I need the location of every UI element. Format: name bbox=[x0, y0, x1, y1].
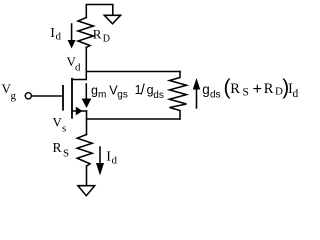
wire top rail bbox=[86, 71, 180, 73]
transistor M1 gate bar bbox=[62, 86, 64, 110]
resistor 1/gds with leads bbox=[170, 72, 187, 120]
svg-text:d: d bbox=[293, 88, 299, 100]
wire top from RD to ground bbox=[86, 5, 113, 18]
transistor M1 source lead bbox=[72, 110, 87, 112]
svg-text:g: g bbox=[11, 90, 17, 102]
svg-text:S: S bbox=[243, 87, 249, 99]
svg-text:g: g bbox=[91, 84, 98, 98]
wire gate bbox=[32, 95, 62, 97]
svg-text:s: s bbox=[62, 123, 66, 135]
svg-text:d: d bbox=[112, 155, 118, 167]
ground (top) bbox=[104, 15, 120, 23]
wire to ground (bottom) bbox=[86, 166, 88, 186]
svg-text:R: R bbox=[230, 81, 240, 97]
wire bottom rail bbox=[87, 118, 181, 120]
transistor M1 source arrow bbox=[76, 107, 83, 116]
current source gmVgs arrow bbox=[85, 84, 87, 100]
svg-text:+: + bbox=[253, 81, 262, 98]
svg-text:D: D bbox=[103, 34, 110, 45]
svg-text:R: R bbox=[93, 27, 102, 42]
current arrow Id (top) bbox=[71, 24, 73, 41]
current arrow gds(RS+RD)Id bbox=[196, 89, 198, 108]
resistor RD bbox=[78, 18, 93, 48]
svg-text:d: d bbox=[75, 62, 81, 74]
svg-text:R: R bbox=[264, 81, 274, 97]
svg-text:g: g bbox=[202, 82, 210, 97]
wire source down bbox=[86, 111, 88, 135]
svg-text:R: R bbox=[53, 140, 62, 155]
svg-text:d: d bbox=[56, 31, 62, 43]
terminal Vg bbox=[25, 93, 31, 99]
svg-text:gs: gs bbox=[117, 90, 128, 101]
wire drain bbox=[72, 48, 87, 80]
ground (bottom) bbox=[78, 186, 95, 196]
resistor RS bbox=[77, 135, 92, 167]
svg-text:ds: ds bbox=[210, 90, 221, 101]
transistor M1 channel bar bbox=[71, 79, 73, 118]
svg-text:m: m bbox=[98, 90, 106, 101]
svg-text:S: S bbox=[63, 148, 69, 160]
svg-text:V: V bbox=[53, 115, 63, 130]
current arrow Id (bottom) bbox=[99, 147, 101, 164]
svg-text:ds: ds bbox=[153, 90, 164, 101]
